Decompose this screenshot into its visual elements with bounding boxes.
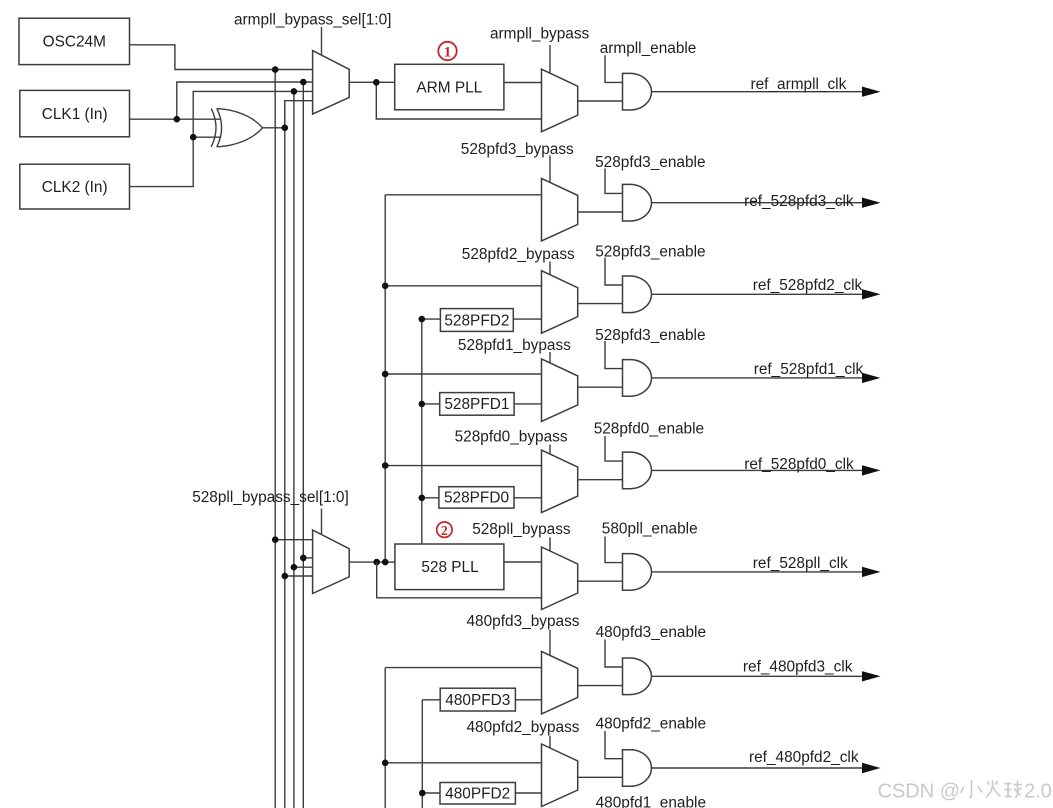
- svg-text:armpll_bypass: armpll_bypass: [490, 26, 590, 43]
- red circled 1: [438, 42, 456, 61]
- select line armpll_bypass: [549, 45, 551, 73]
- wire XOR output to bus: [262, 127, 284, 129]
- wire 528PFD2 input: [422, 318, 441, 320]
- svg-text:ref_480pfd2_clk: ref_480pfd2_clk: [749, 749, 859, 766]
- svg-text:480pfd3_bypass: 480pfd3_bypass: [467, 613, 580, 630]
- wire mux to and gate: [578, 580, 623, 582]
- wire armpll bypass loop: [376, 82, 541, 119]
- select line 528pfd1_bypass: [549, 352, 551, 363]
- arrow ref_528pfd3_clk: [862, 198, 881, 208]
- and gate 528pfd0_enable: [623, 452, 652, 489]
- wire 480PFD3 input: [422, 699, 440, 701]
- wire 528 pfd ref feed vertical: [384, 195, 386, 562]
- svg-text:480pfd1_enable: 480pfd1_enable: [596, 795, 706, 808]
- bus wire vertical XOR out: [284, 101, 286, 808]
- box 528PFD0: [439, 487, 514, 508]
- and gate armpll_enable: [623, 73, 652, 110]
- wire ref_528pfd3_clk output: [652, 202, 863, 204]
- and gate 480pfd3_enable: [623, 658, 652, 695]
- node junction dots left section: [272, 66, 279, 73]
- svg-text:ref_528pfd0_clk: ref_528pfd0_clk: [744, 456, 854, 473]
- select line 480pfd2_bypass: [549, 736, 551, 749]
- ARM PLL box: [395, 64, 504, 110]
- wire ref_528pfd1_clk output: [652, 377, 863, 379]
- mux 528pfd2 bypass: [542, 271, 578, 334]
- wire ref to 480pfd3 mux: [385, 667, 541, 669]
- node dots 528 pll input: [373, 559, 380, 566]
- svg-text:ref_528pfd2_clk: ref_528pfd2_clk: [753, 277, 863, 294]
- svg-text:528pfd3_enable: 528pfd3_enable: [595, 243, 705, 260]
- wire mux to and gate: [578, 685, 623, 687]
- wire enable input: [605, 436, 623, 461]
- wire 528PFD1 input: [422, 403, 440, 405]
- select line 528pfd0_bypass: [549, 445, 551, 455]
- wire ref_528pfd2_clk output: [652, 293, 863, 295]
- wire mux output to ARM PLL: [349, 81, 395, 83]
- wire 528 PLL output to bypass mux: [504, 561, 542, 563]
- arrow ref_528pfd2_clk: [862, 289, 881, 299]
- wire 528PFD0 output to mux: [514, 497, 542, 499]
- input box OSC24M: [19, 18, 130, 64]
- svg-text:528PFD2: 528PFD2: [444, 312, 509, 329]
- and gate 528pfd3_enable row3: [623, 360, 652, 397]
- wire pll ref to 528pfd2 mux: [385, 285, 541, 287]
- wire ref to 480pfd2 mux: [385, 762, 541, 764]
- svg-text:528pfd0_bypass: 528pfd0_bypass: [455, 428, 568, 445]
- mux 528pfd3 bypass: [542, 178, 578, 241]
- wire 528pll bypass loop: [377, 562, 542, 598]
- wire enable input: [605, 731, 623, 759]
- wire pll ref to 528pfd0 mux: [385, 465, 541, 467]
- svg-text:1: 1: [444, 44, 452, 60]
- svg-text:528PFD1: 528PFD1: [444, 396, 509, 413]
- svg-text:2.0: 2.0: [1024, 781, 1052, 803]
- wire ref_armpll_clk output: [652, 91, 863, 93]
- svg-text:528 PLL: 528 PLL: [421, 559, 479, 576]
- wire ref_528pfd0_clk output: [652, 469, 863, 471]
- wire ARM PLL output to bypass mux: [504, 82, 542, 84]
- mux 528pfd1 bypass: [542, 359, 578, 422]
- wire mux to and gate: [578, 211, 623, 213]
- wire enable input: [605, 55, 623, 82]
- mux 480pfd2 bypass: [542, 744, 578, 807]
- xor gate: [211, 109, 262, 147]
- svg-text:528pll_bypass_sel[1:0]: 528pll_bypass_sel[1:0]: [192, 489, 349, 506]
- svg-text:ARM PLL: ARM PLL: [416, 79, 482, 96]
- wire ref_480pfd3_clk output: [652, 675, 863, 677]
- wire enable input: [605, 169, 623, 194]
- mux armpll_bypass_sel (4-input): [313, 51, 350, 115]
- svg-text:CLK2 (In): CLK2 (In): [42, 179, 108, 196]
- arrow ref_528pfd0_clk: [862, 465, 881, 475]
- arrow ref_480pfd3_clk: [862, 671, 881, 681]
- bus wire vertical OSC24M: [274, 70, 276, 808]
- svg-text:528pfd2_bypass: 528pfd2_bypass: [462, 246, 575, 263]
- box 528PFD1: [440, 393, 514, 416]
- wire enable input: [605, 258, 623, 286]
- glyph xiao: [961, 780, 983, 798]
- select line 528pfd2_bypass: [549, 262, 551, 275]
- node dots 528 pfd feeds: [382, 283, 389, 290]
- box 480PFD3: [440, 688, 515, 711]
- svg-text:480PFD3: 480PFD3: [445, 692, 510, 709]
- svg-text:528pfd1_bypass: 528pfd1_bypass: [458, 337, 571, 354]
- svg-text:ref_528pfd1_clk: ref_528pfd1_clk: [754, 361, 864, 378]
- wire ref_528pll_clk output: [652, 571, 863, 573]
- and gate 528pfd3_enable: [623, 184, 652, 221]
- watermark CSDN: [878, 780, 1052, 803]
- wire 480 pfd divider feed vertical: [421, 700, 423, 808]
- wire mux to and gate: [578, 776, 623, 778]
- wire 528 pfd divider feed vertical: [421, 319, 423, 544]
- glyph qiu: [1005, 781, 1023, 798]
- mux armpll bypass: [542, 69, 578, 132]
- wire bus stub input 2: [303, 557, 312, 559]
- input box CLK1 (In): [20, 90, 130, 136]
- wire bus stub input 1: [275, 539, 312, 541]
- svg-text:OSC24M: OSC24M: [43, 34, 106, 51]
- node dot 480 ref tap: [382, 760, 389, 767]
- box 480PFD2: [440, 783, 515, 805]
- svg-text:528pll_bypass: 528pll_bypass: [472, 521, 571, 538]
- wire mux to and gate: [578, 479, 623, 481]
- mux 480pfd3 bypass: [542, 651, 578, 714]
- wire OSC24M to mux input 1: [130, 45, 313, 70]
- wire 480 ref feed vertical: [384, 668, 386, 808]
- svg-text:armpll_enable: armpll_enable: [600, 40, 697, 57]
- wire enable input: [605, 640, 623, 668]
- mux 528pll bypass: [542, 547, 578, 610]
- svg-text:ref_528pll_clk: ref_528pll_clk: [753, 555, 848, 572]
- svg-text:480pfd2_enable: 480pfd2_enable: [596, 716, 706, 733]
- wire 528 mux output to 528 PLL: [349, 561, 395, 563]
- arrow ref_armpll_clk: [862, 87, 881, 97]
- svg-text:528pfd3_bypass: 528pfd3_bypass: [461, 141, 574, 158]
- wire 480PFD2 input: [422, 792, 440, 794]
- wire 528PFD1 output to mux: [514, 403, 541, 405]
- red circled 2: [437, 522, 452, 538]
- wire CLK1 to XOR top input: [130, 118, 221, 120]
- wire enable input: [605, 537, 623, 563]
- wire CLK1 branch up to mux input 2: [177, 82, 313, 119]
- wire CLK2 up to mux input 3: [130, 91, 313, 186]
- bus wire vertical CLK1: [302, 82, 304, 808]
- wire ref_480pfd2_clk output: [652, 767, 863, 769]
- wire 528PFD2 output to mux: [513, 318, 541, 320]
- svg-text:480PFD2: 480PFD2: [445, 786, 510, 803]
- svg-text:armpll_bypass_sel[1:0]: armpll_bypass_sel[1:0]: [234, 12, 391, 29]
- and gate 480pfd2_enable: [623, 750, 652, 787]
- and gate 528pfd3_enable row2: [623, 276, 652, 313]
- arrow ref_480pfd2_clk: [862, 763, 881, 773]
- wire mux to and gate: [578, 386, 623, 388]
- input box CLK2 (In): [20, 164, 130, 209]
- node dot 480PFD2 tap: [419, 790, 426, 797]
- wire XOR bottom input stub: [193, 136, 220, 138]
- svg-text:2: 2: [441, 523, 448, 538]
- box 528PFD2: [440, 309, 513, 332]
- wire pll ref to 528pfd3 mux: [385, 194, 541, 196]
- svg-text:480pfd2_bypass: 480pfd2_bypass: [467, 719, 580, 736]
- select line 528pll_bypass: [549, 538, 551, 552]
- svg-text:ref_armpll_clk: ref_armpll_clk: [751, 76, 847, 93]
- mux 528pll_bypass_sel (4-input): [313, 530, 350, 594]
- select line 480pfd3_bypass: [549, 630, 551, 656]
- svg-text:528pfd3_enable: 528pfd3_enable: [595, 154, 705, 171]
- mux 528pfd0 bypass: [542, 450, 578, 512]
- wire mux to and gate: [578, 100, 623, 102]
- svg-text:528pfd3_enable: 528pfd3_enable: [595, 327, 705, 344]
- arrow ref_528pfd1_clk: [862, 373, 881, 383]
- 528 PLL box: [395, 544, 504, 590]
- wire bus stub input 3: [294, 566, 313, 568]
- svg-text:528pfd0_enable: 528pfd0_enable: [594, 420, 704, 437]
- wire bus stub input 4: [285, 575, 313, 577]
- wire 480PFD2 output to mux: [515, 792, 541, 794]
- wire 480PFD3 output to mux: [515, 699, 541, 701]
- svg-text:480pfd3_enable: 480pfd3_enable: [596, 624, 706, 641]
- select line armpll_bypass_sel: [321, 27, 323, 55]
- svg-text:CSDN @: CSDN @: [878, 781, 961, 803]
- wire mux to and gate: [578, 303, 623, 305]
- svg-text:ref_528pfd3_clk: ref_528pfd3_clk: [744, 193, 854, 210]
- wire enable input: [605, 341, 623, 369]
- arrow ref_528pll_clk: [862, 567, 881, 577]
- svg-text:580pll_enable: 580pll_enable: [602, 521, 698, 538]
- wire pll ref to 528pfd1 mux: [385, 373, 541, 375]
- select line 528pfd3_bypass: [549, 156, 551, 183]
- svg-text:ref_480pfd3_clk: ref_480pfd3_clk: [743, 659, 853, 676]
- bus wire vertical CLK2: [293, 91, 295, 808]
- and gate 580pll_enable: [623, 554, 652, 591]
- wire 528PFD0 input: [422, 497, 439, 499]
- wire XOR bus corner up to mux input 4: [285, 101, 313, 128]
- svg-text:CLK1 (In): CLK1 (In): [42, 106, 108, 123]
- svg-text:528PFD0: 528PFD0: [444, 490, 509, 507]
- select line 528pll_bypass_sel: [321, 509, 323, 535]
- node dots 528 mux inputs: [272, 536, 279, 543]
- glyph huo: [986, 781, 1001, 798]
